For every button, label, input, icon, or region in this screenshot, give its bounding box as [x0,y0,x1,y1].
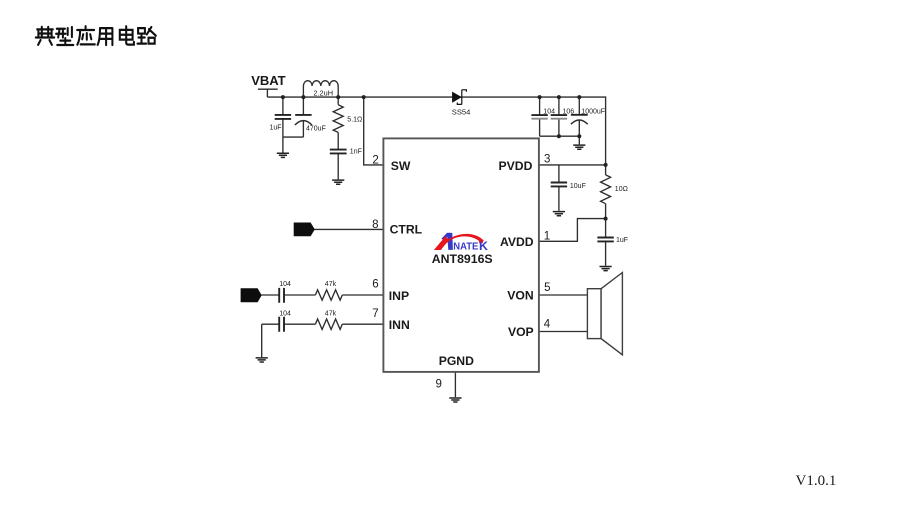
svg-text:470uF: 470uF [306,126,326,133]
svg-text:8: 8 [372,219,378,231]
svg-text:1: 1 [544,231,550,243]
svg-text:47k: 47k [325,310,337,317]
svg-text:3: 3 [544,154,550,166]
svg-text:9: 9 [436,379,442,391]
svg-text:47k: 47k [325,281,337,288]
svg-text:4: 4 [544,319,551,331]
svg-text:6: 6 [372,279,378,291]
svg-text:NATE: NATE [453,242,478,253]
svg-text:SS54: SS54 [452,107,471,116]
svg-text:1000uF: 1000uF [581,109,605,116]
svg-text:5: 5 [544,282,550,294]
svg-text:VOP: VOP [508,325,534,339]
svg-text:2: 2 [372,155,378,167]
svg-text:104: 104 [543,109,555,116]
svg-text:104: 104 [279,281,291,288]
svg-text:10uF: 10uF [570,183,586,190]
svg-text:VON: VON [507,289,533,303]
svg-text:INP: INP [389,289,409,303]
svg-text:1nF: 1nF [350,149,362,156]
svg-text:106: 106 [563,109,575,116]
svg-text:10Ω: 10Ω [615,186,628,193]
svg-text:ANT8916S: ANT8916S [432,252,493,266]
svg-text:1uF: 1uF [270,125,282,132]
svg-text:104: 104 [279,310,291,317]
svg-text:VBAT: VBAT [251,73,285,88]
svg-text:SW: SW [391,159,411,173]
svg-text:AVDD: AVDD [500,235,534,249]
svg-text:PVDD: PVDD [499,159,533,173]
svg-text:V1.0.1: V1.0.1 [796,473,837,489]
svg-text:INN: INN [389,318,410,332]
svg-text:7: 7 [372,308,378,320]
svg-text:2.2uH: 2.2uH [313,88,333,97]
svg-text:K: K [479,239,488,253]
svg-text:CTRL: CTRL [390,223,423,237]
svg-text:5.1Ω: 5.1Ω [347,117,362,124]
svg-text:1uF: 1uF [616,237,628,244]
svg-text:PGND: PGND [439,354,474,368]
